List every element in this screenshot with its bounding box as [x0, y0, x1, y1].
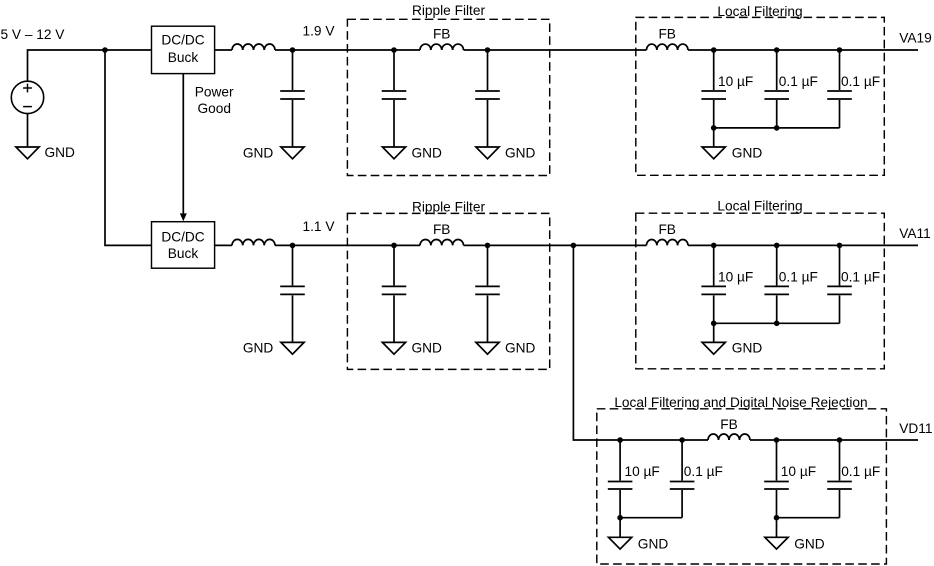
svg-text:5 V – 12 V: 5 V – 12 V — [1, 27, 66, 42]
capacitor digital 10 µF lower lead — [619, 490, 621, 518]
ferrite bead FB digital — [708, 434, 750, 440]
svg-text:GND: GND — [732, 145, 763, 160]
node local cap3 junction (1.9V rail) — [837, 47, 843, 53]
svg-text:Buck: Buck — [168, 50, 199, 65]
local filtering dashed box (1.9V rail) — [636, 17, 885, 175]
capacitor ripple-in lower lead (1.1V rail) — [393, 295, 395, 342]
ground symbol local filtering (1.9V rail) — [702, 147, 725, 159]
svg-text:GND: GND — [243, 341, 274, 356]
svg-text:Buck: Buck — [168, 246, 199, 261]
svg-text:GND: GND — [45, 145, 76, 160]
wire digital ground bus A — [620, 517, 682, 519]
svg-text:0.1 µF: 0.1 µF — [841, 270, 880, 285]
capacitor local 0.1 µF lead (1.1V rail) — [839, 245, 841, 285]
node digital cap1 junction — [617, 437, 623, 443]
inductor L1 buck1 output — [232, 44, 275, 50]
wire L2 to node 1.1V — [275, 244, 420, 246]
wire local ground bus (1.1V rail) — [714, 322, 840, 324]
ground symbol ripple-out (1.9V rail) — [476, 147, 499, 159]
capacitor digital 0.1 µF lower lead — [681, 490, 683, 518]
svg-text:GND: GND — [243, 145, 274, 160]
wire source-top to rail to buck1 input — [28, 50, 152, 81]
node local cap1 junction (1.1V rail) — [711, 243, 717, 249]
capacitor digital 0.1 µF plates — [827, 481, 852, 483]
wire V1 to ground — [27, 114, 29, 147]
wire bus A to ground — [619, 518, 621, 538]
node digital bus A junction — [617, 515, 623, 521]
node local bus junction 1 (1.9V rail) — [711, 125, 717, 131]
svg-text:FB: FB — [433, 222, 451, 237]
wire bus B to ground — [776, 518, 778, 538]
capacitor ripple-in lower lead (1.9V rail) — [393, 100, 395, 147]
capacitor ripple-out lower lead (1.1V rail) — [487, 295, 489, 342]
svg-text:10 µF: 10 µF — [718, 74, 753, 89]
wire bus to ground (1.9V rail) — [713, 128, 715, 147]
capacitor local 10 µF lead (1.9V rail) — [713, 50, 715, 90]
svg-text:FB: FB — [720, 417, 738, 432]
capacitor local 0.1 µF plates (1.1V rail) — [827, 285, 852, 287]
node 1.1V junction — [290, 243, 296, 249]
svg-text:Local Filtering: Local Filtering — [717, 199, 802, 214]
capacitor digital 10 µF plates — [608, 481, 633, 483]
ground symbol below C2 — [281, 342, 304, 354]
ground symbol ripple-in (1.9V rail) — [382, 147, 405, 159]
svg-text:10 µF: 10 µF — [718, 270, 753, 285]
ferrite bead FB local (1.1V rail) — [647, 239, 689, 245]
wire bus to ground (1.1V rail) — [713, 323, 715, 342]
svg-text:VD11: VD11 — [899, 421, 932, 436]
capacitor local 0.1 µF lead (1.9V rail) — [839, 50, 841, 90]
svg-text:GND: GND — [794, 536, 825, 551]
capacitor ripple-in lead (1.1V rail) — [393, 245, 395, 285]
node ripple output junction (1.1V rail) — [485, 243, 491, 249]
local filtering dashed box (1.1V rail) — [636, 213, 885, 369]
ground symbol ripple-in (1.1V rail) — [382, 342, 405, 354]
node local bus junction 1 (1.1V rail) — [711, 321, 717, 327]
node digital bus B junction — [774, 515, 780, 521]
node local cap3 junction (1.1V rail) — [837, 243, 843, 249]
svg-text:VA11: VA11 — [899, 226, 930, 241]
capacitor C2 at 1.1V node lead — [292, 245, 294, 285]
capacitor digital 0.1 µF lead — [839, 440, 841, 481]
wire FB to ripple output (1.1V rail) — [464, 244, 647, 246]
node VD11 branch tee junction — [571, 243, 577, 249]
capacitor digital 10 µF lead — [619, 440, 621, 481]
svg-text:DC/DC: DC/DC — [161, 230, 204, 245]
voltage source V1 plus sign — [23, 84, 32, 93]
svg-text:0.1 µF: 0.1 µF — [779, 270, 818, 285]
capacitor digital 10 µF lead — [776, 440, 778, 481]
svg-text:GND: GND — [732, 341, 763, 356]
ground symbol digital A — [609, 537, 632, 549]
capacitor local 10 µF lead (1.1V rail) — [713, 245, 715, 285]
svg-text:0.1 µF: 0.1 µF — [684, 464, 723, 479]
node local bus junction 2 (1.1V rail) — [774, 321, 780, 327]
wire FB local to output (1.9V rail) — [688, 49, 918, 51]
dc/dc buck converter U2 box — [152, 222, 215, 269]
svg-text:FB: FB — [658, 27, 676, 42]
capacitor local 0.1 µF plates (1.9V rail) — [827, 90, 852, 92]
svg-text:Local Filtering: Local Filtering — [717, 4, 802, 19]
ferrite bead FB ripple (1.1V rail) — [420, 239, 464, 245]
capacitor local 0.1 µF lower lead (1.9V rail) — [839, 100, 841, 128]
ground symbol below V1 — [16, 147, 39, 159]
svg-text:0.1 µF: 0.1 µF — [779, 74, 818, 89]
capacitor local 10 µF lower lead (1.9V rail) — [713, 100, 715, 128]
capacitor C1 at 1.9V node lead — [292, 50, 294, 90]
svg-text:GND: GND — [505, 341, 536, 356]
node local cap2 junction (1.1V rail) — [774, 243, 780, 249]
capacitor C2 plates — [280, 285, 305, 287]
capacitor ripple-out lead (1.1V rail) — [487, 245, 489, 285]
wire local ground bus (1.9V rail) — [714, 127, 840, 129]
capacitor local 0.1 µF lead (1.9V rail) — [776, 50, 778, 90]
digital noise rejection dashed box — [597, 409, 887, 564]
wire FB digital to VD11 output — [750, 439, 918, 441]
node digital cap4 junction — [837, 437, 843, 443]
capacitor local 0.1 µF lower lead (1.1V rail) — [776, 295, 778, 323]
power good arrowhead — [180, 213, 187, 221]
ground symbol below C1 — [281, 147, 304, 159]
node input-rail tee junction — [102, 47, 108, 53]
capacitor digital 10 µF lower lead — [776, 490, 778, 518]
ground symbol local filtering (1.1V rail) — [702, 342, 725, 354]
svg-text:10 µF: 10 µF — [625, 464, 660, 479]
svg-text:Ripple Filter: Ripple Filter — [412, 3, 485, 18]
capacitor ripple-out plates (1.1V rail) — [475, 285, 500, 287]
svg-text:GND: GND — [412, 145, 443, 160]
svg-text:Ripple Filter: Ripple Filter — [412, 199, 485, 214]
svg-text:0.1 µF: 0.1 µF — [841, 464, 880, 479]
ripple filter dashed box (1.9V rail) — [347, 19, 549, 175]
ground symbol ripple-out (1.1V rail) — [476, 342, 499, 354]
dc/dc buck converter U1 box — [152, 26, 215, 73]
voltage source V1 circle — [11, 81, 43, 113]
wire FB local to output (1.1V rail) — [688, 244, 918, 246]
node 1.9V junction — [290, 47, 296, 53]
ferrite bead FB local (1.9V rail) — [647, 44, 689, 50]
capacitor digital 0.1 µF lead — [681, 440, 683, 481]
svg-text:GND: GND — [638, 536, 669, 551]
node ripple output junction (1.9V rail) — [485, 47, 491, 53]
svg-text:1.9 V: 1.9 V — [303, 23, 336, 38]
capacitor ripple-in lead (1.9V rail) — [393, 50, 395, 90]
capacitor C1 lower lead — [292, 100, 294, 147]
capacitor ripple-out lower lead (1.9V rail) — [487, 100, 489, 147]
capacitor local 0.1 µF plates (1.1V rail) — [764, 285, 789, 287]
wire FB to ripple output (1.9V rail) — [464, 49, 647, 51]
capacitor digital 0.1 µF lower lead — [839, 490, 841, 518]
capacitor ripple-in plates (1.9V rail) — [382, 90, 407, 92]
power good signal wire — [182, 74, 184, 215]
node local bus junction 2 (1.9V rail) — [774, 125, 780, 131]
capacitor C2 lower lead — [292, 295, 294, 342]
node digital cap2 junction — [679, 437, 685, 443]
capacitor local 0.1 µF lower lead (1.1V rail) — [839, 295, 841, 323]
wire input rail drop to buck2 — [105, 50, 152, 245]
svg-text:Local Filtering and Digital No: Local Filtering and Digital Noise Reject… — [614, 395, 867, 410]
capacitor local 10 µF lower lead (1.1V rail) — [713, 295, 715, 323]
ground symbol digital B — [765, 537, 788, 549]
capacitor ripple-out lead (1.9V rail) — [487, 50, 489, 90]
capacitor local 10 µF plates (1.1V rail) — [701, 285, 726, 287]
ripple filter dashed box (1.1V rail) — [347, 213, 549, 369]
capacitor C1 plates — [280, 90, 305, 92]
voltage source V1 minus sign — [23, 106, 32, 108]
svg-text:0.1 µF: 0.1 µF — [841, 74, 880, 89]
svg-text:10 µF: 10 µF — [781, 464, 816, 479]
node local cap1 junction (1.9V rail) — [711, 47, 717, 53]
ferrite bead FB ripple (1.9V rail) — [420, 44, 464, 50]
capacitor local 10 µF plates (1.9V rail) — [701, 90, 726, 92]
node digital cap3 junction — [774, 437, 780, 443]
svg-text:1.1 V: 1.1 V — [303, 219, 336, 234]
capacitor local 0.1 µF lower lead (1.9V rail) — [776, 100, 778, 128]
capacitor digital 10 µF plates — [764, 481, 789, 483]
svg-text:DC/DC: DC/DC — [161, 33, 204, 48]
inductor L2 buck2 output — [232, 239, 275, 245]
svg-text:Good: Good — [197, 101, 230, 116]
capacitor ripple-out plates (1.9V rail) — [475, 90, 500, 92]
wire L1 to node 1.9V — [275, 49, 420, 51]
capacitor local 0.1 µF lead (1.1V rail) — [776, 245, 778, 285]
wire VD11 branch drop — [573, 245, 708, 440]
wire digital ground bus B — [777, 517, 840, 519]
svg-text:GND: GND — [412, 341, 443, 356]
node local cap2 junction (1.9V rail) — [774, 47, 780, 53]
wire buck1 output to inductor L1 — [215, 49, 232, 51]
svg-text:FB: FB — [658, 222, 676, 237]
svg-text:GND: GND — [505, 145, 536, 160]
wire buck2 output to inductor L2 — [215, 244, 232, 246]
svg-text:VA19: VA19 — [899, 31, 931, 46]
capacitor ripple-in plates (1.1V rail) — [382, 285, 407, 287]
svg-text:Power: Power — [195, 85, 234, 100]
svg-text:FB: FB — [433, 27, 451, 42]
node ripple input junction (1.1V rail) — [391, 243, 397, 249]
capacitor digital 0.1 µF plates — [670, 481, 695, 483]
capacitor local 0.1 µF plates (1.9V rail) — [764, 90, 789, 92]
node ripple input junction (1.9V rail) — [391, 47, 397, 53]
